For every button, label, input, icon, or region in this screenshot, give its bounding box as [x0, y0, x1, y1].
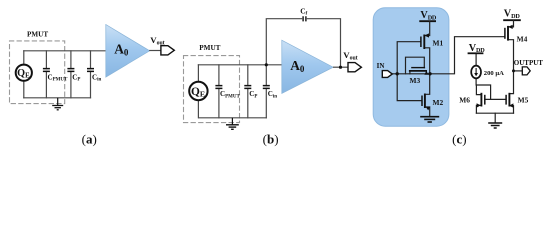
wire IN to node: [392, 73, 430, 75]
node feedback-input junction: [265, 63, 268, 66]
svg-text:M2: M2: [433, 98, 444, 107]
capacitor Cin: [87, 69, 94, 72]
wire VDD to M1 source: [424, 21, 429, 35]
capacitor Cp (b): [244, 86, 251, 89]
wire top rail: [24, 50, 107, 52]
wire CPMUT leads: [45, 51, 47, 98]
wire VDD to M4 source: [508, 20, 514, 27]
power rail VDD (M4): [503, 19, 521, 21]
wire M4 drain to M5 drain: [508, 40, 514, 94]
svg-text:M5: M5: [518, 96, 529, 105]
wire Cin leads (b): [265, 65, 267, 118]
node feedback-output junction: [339, 66, 342, 69]
wire QE leads: [23, 51, 25, 98]
power rail VDD (current source): [468, 52, 484, 54]
wire M6 leads: [476, 85, 481, 113]
capacitor Cf: [303, 16, 306, 21]
transistor M6: [481, 93, 484, 107]
svg-text:IN: IN: [377, 62, 385, 70]
transistor M5: [506, 93, 509, 107]
transistor M1: [421, 35, 424, 50]
capacitor CPMUT (b): [215, 86, 222, 89]
PMUT dashed box: [10, 41, 65, 104]
capacitor CPMUT: [43, 69, 50, 72]
port Vout (a): [161, 46, 174, 55]
wire A0 output: [149, 50, 161, 52]
wire Cp leads: [70, 51, 72, 98]
wire gate bus M1-M2: [397, 42, 422, 101]
wire M3 stubs: [410, 71, 427, 74]
ground (b): [226, 118, 239, 130]
node output junction: [428, 72, 431, 75]
wire top rail (b): [198, 64, 282, 66]
wire M2 source to ground: [425, 107, 430, 117]
capacitor Cp: [67, 69, 74, 72]
wire bottom rail (b): [199, 117, 266, 119]
svg-text:M4: M4: [517, 34, 528, 43]
first-stage blue box: [373, 8, 449, 127]
wire M1 drain to M2 drain: [424, 48, 429, 95]
wire current source branch: [476, 53, 491, 99]
svg-text:PMUT: PMUT: [199, 44, 220, 52]
current source I1: [471, 66, 481, 79]
wire output tee: [514, 70, 523, 72]
transistor M2: [422, 94, 425, 109]
svg-text:M1: M1: [433, 38, 444, 47]
wire A0 output (b): [333, 66, 348, 68]
PMUT dashed box (b): [184, 56, 240, 123]
svg-text:(a): (a): [82, 132, 97, 147]
wire first stage output to M4 gate: [430, 37, 505, 74]
source QE (b): [189, 82, 207, 100]
wire gate bus M6-M5: [485, 98, 506, 100]
node IN junction: [396, 72, 399, 75]
port IN: [382, 71, 392, 78]
svg-text:200 µA: 200 µA: [484, 70, 504, 77]
transistor M4: [505, 26, 508, 41]
capacitor Cin (b): [263, 86, 270, 89]
wire ground stem: [494, 113, 496, 123]
wire Cp leads (b): [247, 65, 249, 118]
power rail VDD (box): [419, 20, 436, 22]
wire QE leads (b): [197, 65, 199, 118]
svg-text:M3: M3: [410, 76, 421, 85]
ground (c box): [420, 117, 439, 122]
wire feedback loop: [266, 19, 340, 67]
transistor M3: [409, 68, 427, 71]
op-amp A0 (a): [106, 25, 150, 78]
op-amp A0 (b): [282, 40, 333, 93]
port Vout (b): [348, 63, 361, 72]
wire M5 source to rail: [509, 106, 513, 114]
svg-text:OUTPUT: OUTPUT: [514, 59, 544, 67]
svg-text:PMUT: PMUT: [27, 30, 48, 38]
wire Cin leads: [90, 51, 92, 98]
wire M3 gate loop: [406, 57, 425, 74]
node output tee junction: [512, 69, 515, 72]
ground (a): [52, 98, 63, 110]
svg-text:(c): (c): [452, 132, 466, 147]
port OUTPUT: [522, 67, 530, 75]
wire CPMUT leads (b): [218, 65, 220, 118]
ground (c right): [488, 123, 502, 128]
wire bottom rail: [476, 112, 513, 114]
svg-text:M6: M6: [459, 96, 470, 105]
source QE: [16, 65, 32, 81]
svg-text:(b): (b): [263, 132, 279, 147]
wire bottom rail: [24, 97, 91, 99]
